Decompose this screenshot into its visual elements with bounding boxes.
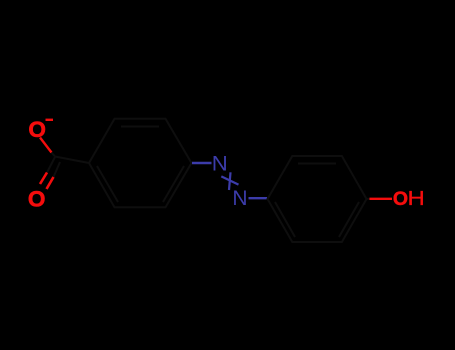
inner double bond left-bottom edge	[275, 202, 295, 237]
inner double bond right-bottom edge	[163, 166, 184, 202]
N=N crossed double bond	[221, 172, 238, 190]
bond ring to OH (red)	[370, 198, 393, 200]
inner double bond right-bottom edge	[339, 202, 359, 237]
C=O double bond red halves	[40, 173, 54, 190]
dark stub ring to OH bond	[367, 198, 371, 200]
inner double bond top edge	[121, 126, 159, 128]
benzene ring right (phenol ring)	[268, 156, 367, 242]
C=O double bond dark halves	[47, 157, 60, 177]
dark stub O- bond to C	[52, 153, 56, 157]
bond N2 to right ring (blue)	[249, 197, 268, 199]
benzene ring left (carboxylate ring)	[89, 119, 192, 207]
svg-text:O: O	[28, 117, 46, 142]
svg-text:O: O	[393, 188, 408, 210]
bond carboxyl C to ring	[55, 157, 89, 164]
svg-text:N: N	[212, 152, 228, 176]
svg-text:N: N	[232, 187, 247, 210]
bond ring to N1 (blue)	[192, 162, 212, 164]
minus sign	[46, 119, 54, 121]
inner double bond top edge	[298, 163, 336, 165]
inner double bond left-bottom edge	[97, 166, 118, 202]
svg-text:O: O	[28, 187, 46, 212]
svg-text:H: H	[408, 187, 425, 210]
carboxylate O- bond (red)	[40, 138, 52, 153]
